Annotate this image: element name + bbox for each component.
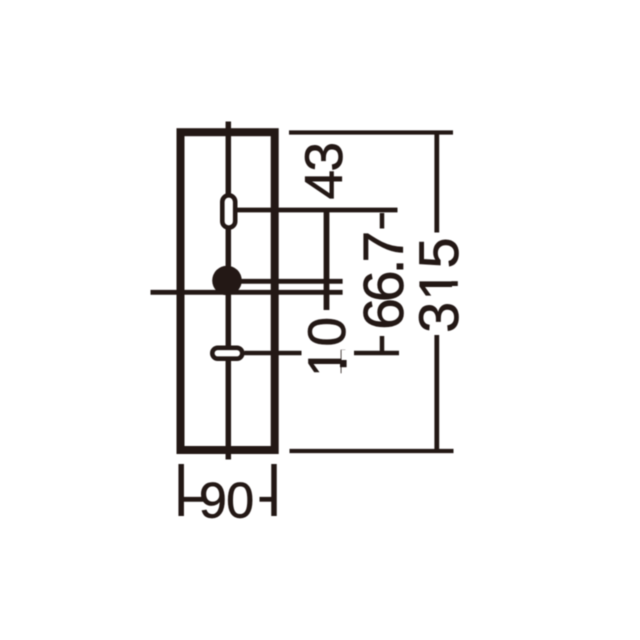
svg-text:315: 315 (408, 236, 470, 333)
svg-text:43: 43 (295, 144, 354, 200)
svg-text:66.7: 66.7 (352, 234, 416, 330)
svg-text:90: 90 (199, 473, 254, 529)
